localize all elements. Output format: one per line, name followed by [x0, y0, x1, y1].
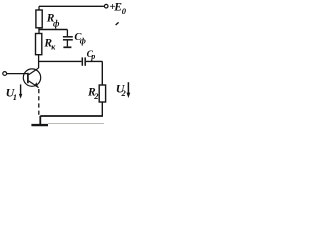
svg-text:2: 2 [93, 91, 99, 101]
svg-text:ф: ф [80, 35, 86, 45]
svg-text:2: 2 [121, 88, 127, 98]
svg-text:1: 1 [13, 92, 17, 102]
svg-text:0: 0 [122, 6, 127, 16]
svg-text:ф: ф [53, 19, 60, 29]
svg-text:р: р [90, 52, 95, 61]
svg-text:к: к [51, 43, 56, 52]
